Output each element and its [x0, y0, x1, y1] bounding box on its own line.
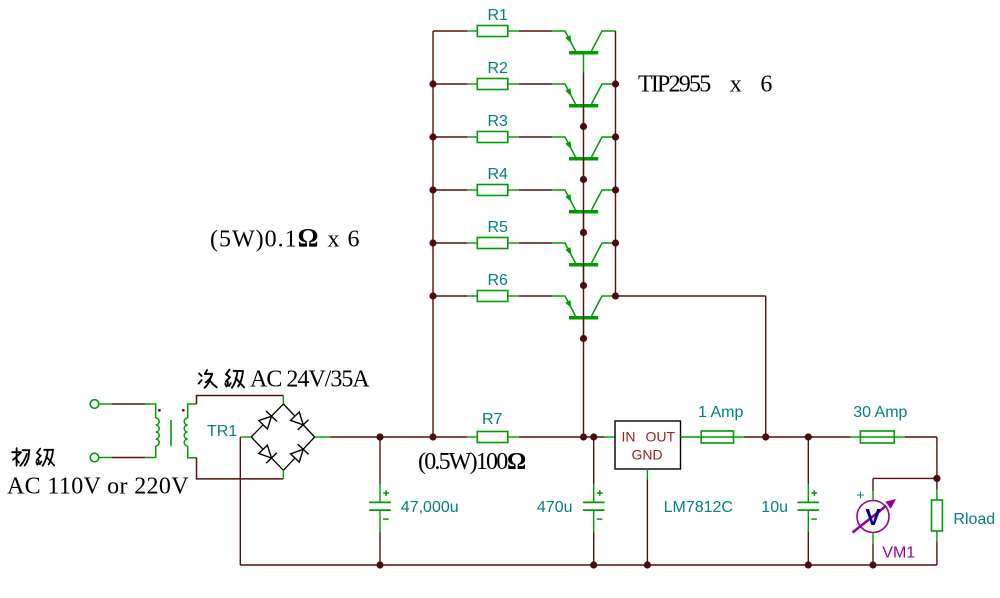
wire emitter net 6 [519, 295, 552, 297]
terminal P2 [90, 453, 112, 462]
junction base bus [580, 282, 587, 289]
wire voltmeter branch [873, 477, 937, 479]
junction base bus [580, 335, 587, 342]
wire primary bottom [112, 457, 145, 459]
junction load/VM [933, 475, 940, 482]
resistor R4 [467, 185, 519, 196]
wire secondary bottom to bridge [197, 458, 284, 479]
junction base bus/main [580, 433, 587, 440]
junction left bus [429, 239, 436, 246]
svg-text:AC 110V or 220V: AC 110V or 220V [7, 474, 189, 500]
junction left bus [429, 133, 436, 140]
svg-text:47,000u: 47,000u [401, 499, 459, 516]
wire to load [905, 436, 937, 438]
svg-text:TIP2955 x 6: TIP2955 x 6 [638, 72, 772, 98]
svg-text:LM7812C: LM7812C [664, 499, 733, 516]
transistor Q6 TIP2955 [552, 296, 616, 339]
svg-text:1 Amp: 1 Amp [698, 404, 743, 421]
junction collector bus [612, 133, 619, 140]
resistor R1 [467, 26, 519, 37]
wire secondary top to bridge [197, 396, 284, 405]
junction C1/main [376, 433, 383, 440]
svg-text:OUT: OUT [646, 429, 676, 445]
svg-text:V: V [865, 504, 881, 530]
svg-text:VM1: VM1 [882, 545, 915, 562]
transistor Q4 TIP2955 [552, 190, 616, 233]
resistor Rload [932, 478, 943, 565]
wire emitter net 2 [519, 83, 552, 85]
capacitor C2 470u [583, 437, 605, 565]
transistor Q5 TIP2955 [552, 243, 616, 286]
junction C3/rail [805, 561, 812, 568]
svg-text:(5W)0.1Ω x 6: (5W)0.1Ω x 6 [210, 224, 360, 253]
svg-text:470u: 470u [537, 499, 573, 516]
svg-text:R1: R1 [488, 7, 509, 24]
junction base bus [580, 123, 587, 130]
fuse F2 30 Amp [850, 431, 905, 443]
label CJK ji 級 [225, 370, 244, 388]
wire emitter net 5 [519, 242, 552, 244]
junction VM/rail [869, 561, 876, 568]
label CJK ji 級 [36, 449, 54, 466]
node row 2 left wire [433, 83, 467, 85]
junction base bus [580, 229, 587, 236]
svg-text:GND: GND [632, 447, 663, 463]
svg-text:(0.5W)100Ω: (0.5W)100Ω [418, 449, 526, 475]
svg-text:Rload: Rload [953, 511, 995, 528]
svg-text:R5: R5 [488, 219, 509, 236]
resistor R3 [467, 132, 519, 143]
resistor R2 [467, 79, 519, 90]
resistor R5 [467, 238, 519, 249]
node row 3 left wire [433, 136, 467, 138]
capacitor C3 10u [798, 437, 820, 565]
node row 6 left wire [433, 295, 467, 297]
junction C2/rail [590, 561, 597, 568]
node row 1 left wire [433, 30, 467, 32]
svg-text:R2: R2 [488, 60, 509, 77]
voltmeter VM1 [853, 487, 897, 566]
junction base bus [580, 176, 587, 183]
junction collector bus [612, 239, 619, 246]
wire output net [744, 436, 850, 438]
svg-text:R6: R6 [488, 272, 509, 289]
wire ground rail [240, 564, 937, 566]
junction left bus [429, 80, 436, 87]
svg-text:TR1: TR1 [207, 423, 237, 440]
wire left bus [432, 31, 434, 437]
junction left bus [429, 292, 436, 299]
wire base bus [583, 73, 585, 437]
terminal P1 [90, 400, 112, 409]
bridge rectifier D1 [240, 396, 330, 479]
svg-text:IN: IN [622, 429, 636, 445]
wire primary top [112, 403, 145, 405]
svg-text:AC 24V/35A: AC 24V/35A [250, 367, 370, 393]
transistor Q3 TIP2955 [552, 137, 616, 180]
junction C3/main [805, 433, 812, 440]
transformer TR1 [145, 404, 197, 458]
junction C1/rail [376, 561, 383, 568]
transistor Q1 TIP2955 [552, 31, 616, 74]
svg-text:R7: R7 [482, 411, 503, 428]
wire emitter net 3 [519, 136, 552, 138]
capacitor C1 47,000u [369, 437, 391, 565]
label CJK ci 次 [199, 370, 217, 388]
junction C2/main [590, 433, 597, 440]
resistor R6 [467, 291, 519, 302]
svg-text:10u: 10u [761, 499, 788, 516]
svg-text:R3: R3 [488, 113, 509, 130]
junction left bus / main [429, 433, 436, 440]
wire GND lead to rail [646, 480, 648, 566]
node row 4 left wire [433, 189, 467, 191]
junction GND/rail [644, 561, 651, 568]
junction collector bus [612, 80, 619, 87]
node row 5 left wire [433, 242, 467, 244]
junction loop/main [762, 433, 769, 440]
svg-text:+: + [856, 487, 864, 503]
junction collector bus [612, 292, 619, 299]
label CJK chu 初 [12, 448, 29, 466]
junction collector bus [612, 186, 619, 193]
wire collector loop to output [616, 295, 766, 297]
transistor Q2 TIP2955 [552, 84, 616, 127]
regulator U1 LM7812C [605, 421, 702, 480]
svg-text:30 Amp: 30 Amp [853, 404, 907, 421]
fuse F1 1 Amp [701, 431, 744, 443]
wire emitter net 1 [519, 30, 552, 32]
wire collector bus [615, 31, 617, 296]
wire bridge minus to rail [239, 437, 241, 565]
wire main +V net [330, 436, 467, 438]
wire emitter net 4 [519, 189, 552, 191]
resistor R7 [467, 432, 519, 443]
svg-text:R4: R4 [488, 166, 509, 183]
junction left bus [429, 186, 436, 193]
